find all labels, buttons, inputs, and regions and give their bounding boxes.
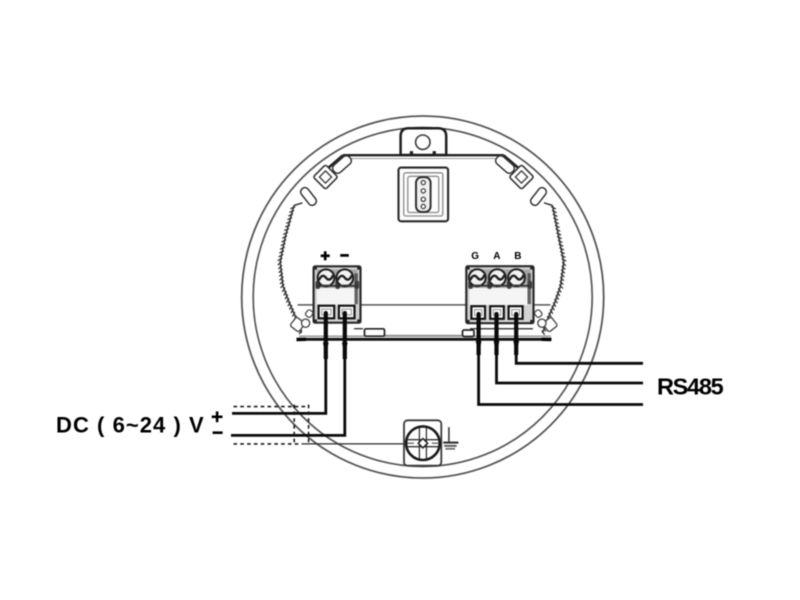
svg-text:G: G [471,251,479,262]
svg-text:A: A [493,251,500,262]
svg-text:DC ( 6~24 ) V: DC ( 6~24 ) V [56,412,205,437]
svg-text:B: B [514,251,521,262]
svg-text:RS485: RS485 [657,374,724,400]
